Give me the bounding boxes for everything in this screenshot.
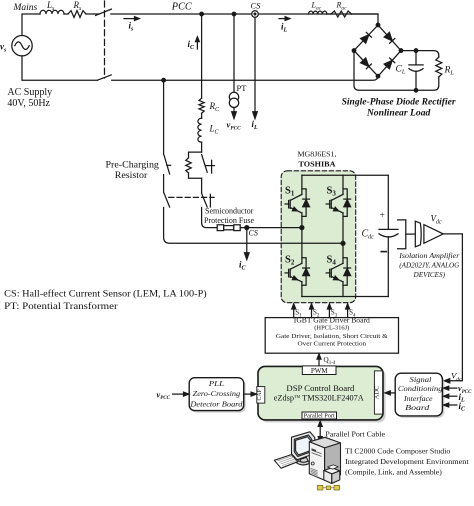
- svg-text:Mains: Mains: [13, 3, 38, 13]
- svg-text:PT: PT: [237, 83, 248, 93]
- svg-text:eZdspTM TMS320LF2407A: eZdspTM TMS320LF2407A: [274, 393, 364, 402]
- svg-text:Protection Fuse: Protection Fuse: [204, 216, 254, 225]
- svg-text:Nonlinear Load: Nonlinear Load: [366, 108, 431, 118]
- svg-text:(AD202JY, ANALOG: (AD202JY, ANALOG: [399, 261, 459, 269]
- svg-text:Semiconductor: Semiconductor: [205, 207, 254, 216]
- svg-text:Resistor: Resistor: [115, 170, 148, 180]
- svg-text:Integrated Development Environ: Integrated Development Environment: [345, 457, 469, 466]
- svg-text:Interface: Interface: [403, 394, 433, 403]
- svg-text:Detector Board: Detector Board: [189, 400, 242, 409]
- svg-text:IGBT Gate Driver Board: IGBT Gate Driver Board: [294, 317, 371, 325]
- svg-text:PWM: PWM: [311, 367, 329, 375]
- svg-text:Zero-Crossing: Zero-Crossing: [193, 389, 240, 398]
- svg-text:CS: CS: [251, 1, 262, 11]
- svg-text:Pre-Charging: Pre-Charging: [106, 160, 160, 170]
- svg-text:Over Current Protection: Over Current Protection: [298, 341, 367, 348]
- svg-text:+: +: [380, 211, 385, 221]
- svg-text:Board: Board: [405, 403, 429, 412]
- svg-text:40V, 50Hz: 40V, 50Hz: [7, 98, 50, 109]
- svg-text:(Compile, Link, and Assemble): (Compile, Link, and Assemble): [345, 468, 442, 477]
- svg-text:(HPCL-316J): (HPCL-316J): [314, 325, 349, 332]
- svg-text:Isolation Amplifier: Isolation Amplifier: [398, 251, 459, 260]
- svg-text:PT: Potential Transformer: PT: Potential Transformer: [4, 301, 118, 312]
- svg-text:Conditioning: Conditioning: [398, 384, 443, 393]
- svg-text:TOSHIBA: TOSHIBA: [299, 160, 337, 169]
- svg-text:Parallel Port Cable: Parallel Port Cable: [325, 429, 385, 438]
- svg-text:AC Supply: AC Supply: [7, 87, 52, 98]
- svg-text:ADC: ADC: [374, 386, 381, 400]
- svg-text:Signal: Signal: [410, 375, 432, 384]
- svg-text:Gate Driver, Isolation, Short: Gate Driver, Isolation, Short Circuit &: [276, 333, 389, 340]
- svg-text:Single-Phase Diode Rectifier: Single-Phase Diode Rectifier: [342, 97, 456, 107]
- svg-text:TI C2000 Code Composer Studio: TI C2000 Code Composer Studio: [345, 447, 450, 456]
- svg-text:CS: CS: [249, 229, 258, 238]
- svg-text:MG8J6ES1,: MG8J6ES1,: [298, 151, 337, 159]
- svg-text:CS: Hall-effect Current Sensor: CS: Hall-effect Current Sensor (LEM, LA …: [4, 289, 207, 300]
- svg-text:PLL: PLL: [208, 379, 224, 388]
- svg-text:CAP: CAP: [257, 389, 263, 400]
- svg-text:Parallel Port: Parallel Port: [304, 414, 335, 420]
- svg-text:DSP Control Board: DSP Control Board: [286, 384, 354, 393]
- svg-text:PCC: PCC: [171, 1, 192, 12]
- svg-text:DEVICES): DEVICES): [413, 271, 446, 279]
